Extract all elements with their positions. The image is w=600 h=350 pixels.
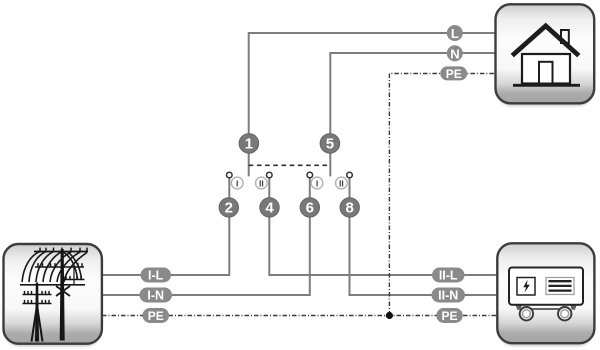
wire L (from switch pole 1 up and right to house) (249, 33, 496, 176)
svg-text:PE: PE (441, 309, 457, 323)
wire I-L (grid L to contact 2) (102, 177, 229, 275)
contact I of pole 1 (227, 172, 233, 178)
terminal 1 (239, 134, 259, 154)
svg-text:L: L (451, 26, 459, 41)
contact I of pole 2 (307, 172, 313, 178)
label II-N (432, 288, 466, 303)
wire II-L (contact 4 to generator) (269, 177, 497, 275)
label II-L (432, 268, 465, 283)
wire PE bottom (dash-dot, grid to generator) (102, 315, 497, 317)
node PE junction (386, 312, 393, 319)
house icon (513, 26, 580, 86)
svg-text:5: 5 (326, 136, 334, 153)
svg-text:I-N: I-N (147, 289, 164, 303)
wire PE riser (dash-dot, up to house) (389, 74, 496, 316)
house box shadow (497, 8, 594, 107)
wire mechanical link (dashed coupling of switch poles) (249, 164, 331, 166)
generator box (497, 243, 594, 343)
generator box shadow (498, 247, 593, 346)
wire I-N (grid N to contact 6) (102, 177, 310, 295)
generator icon (509, 268, 583, 321)
terminal 8 (340, 198, 359, 217)
insulator pins (25, 248, 88, 303)
label PE (generator) (436, 308, 463, 323)
svg-text:N: N (450, 46, 459, 61)
utility pole (tall) (20, 249, 88, 341)
label N (447, 45, 463, 61)
label position II (pole 2) (336, 177, 348, 189)
terminal 6 (300, 198, 319, 217)
wire II-N (contact 8 to generator) (350, 177, 498, 295)
contact II of pole 2 (347, 172, 353, 178)
svg-text:6: 6 (306, 200, 314, 217)
svg-text:I: I (236, 178, 238, 188)
terminal 2 (219, 198, 238, 217)
svg-text:II: II (339, 178, 344, 188)
svg-text:I-L: I-L (148, 269, 164, 283)
svg-text:4: 4 (265, 200, 274, 217)
svg-text:I: I (316, 178, 318, 188)
svg-text:II-N: II-N (438, 289, 458, 303)
svg-text:8: 8 (346, 200, 354, 217)
label L (447, 25, 463, 41)
svg-text:PE: PE (148, 309, 164, 323)
label I-N (140, 288, 173, 303)
svg-text:PE: PE (446, 67, 462, 81)
label position II (pole 1) (256, 177, 268, 189)
terminal 4 (260, 198, 279, 217)
house box (496, 4, 595, 103)
svg-text:1: 1 (245, 136, 253, 153)
terminal 5 (320, 134, 340, 154)
svg-text:2: 2 (225, 200, 233, 217)
label position I (pole 1) (231, 177, 243, 189)
label I-L (141, 268, 172, 283)
utility pole (short, A-frame) (23, 283, 52, 342)
wire N (from switch pole 5 up and right to house) (330, 53, 496, 176)
svg-text:II: II (259, 178, 264, 188)
label PE (house) (440, 66, 467, 81)
grid box (4, 244, 102, 344)
label PE (grid) (143, 308, 170, 323)
power line wires (sagging span) (22, 252, 87, 283)
svg-text:II-L: II-L (439, 269, 458, 283)
grid box shadow (5, 247, 101, 346)
contact II of pole 1 (267, 172, 273, 178)
label position I (pole 2) (311, 177, 323, 189)
